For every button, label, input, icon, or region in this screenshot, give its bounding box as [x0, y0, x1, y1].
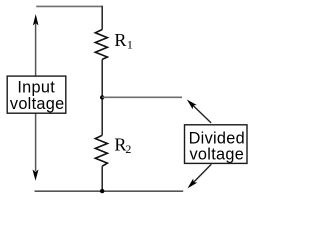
node junction dot bottom [100, 189, 104, 193]
wire top vertical segment [101, 6, 103, 30]
label R2 [114, 134, 131, 156]
input voltage annotation arrow down [33, 113, 39, 181]
resistor R2 [95, 135, 107, 166]
wire bottom rail [35, 190, 184, 192]
wire top rail [36, 5, 102, 7]
input voltage label box [7, 76, 66, 113]
node junction dot [100, 95, 104, 99]
arrow divided voltage to node wire [185, 97, 211, 122]
svg-text:voltage: voltage [10, 95, 65, 113]
resistor R1 [95, 30, 107, 60]
wire middle vertical segment [101, 59, 103, 135]
divided voltage label box [185, 125, 248, 164]
input voltage annotation arrow up [33, 14, 39, 76]
svg-text:R: R [114, 30, 126, 50]
wire bottom vertical segment [101, 166, 103, 191]
svg-text:voltage: voltage [189, 146, 244, 164]
wire node to right [102, 96, 182, 98]
svg-text:2: 2 [125, 142, 131, 156]
label R1 [114, 30, 132, 52]
svg-text:1: 1 [127, 37, 133, 51]
arrow divided voltage to bottom rail [185, 164, 211, 190]
